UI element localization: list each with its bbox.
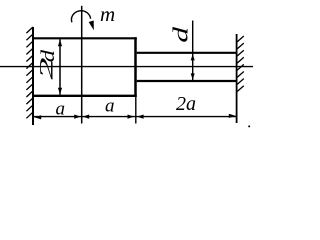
svg-text:a: a (105, 96, 115, 117)
svg-text:2a: 2a (176, 93, 196, 115)
svg-text:d: d (168, 26, 192, 42)
svg-text:a: a (56, 99, 66, 120)
svg-text:d: d (37, 49, 59, 62)
svg-text:m: m (100, 2, 115, 26)
